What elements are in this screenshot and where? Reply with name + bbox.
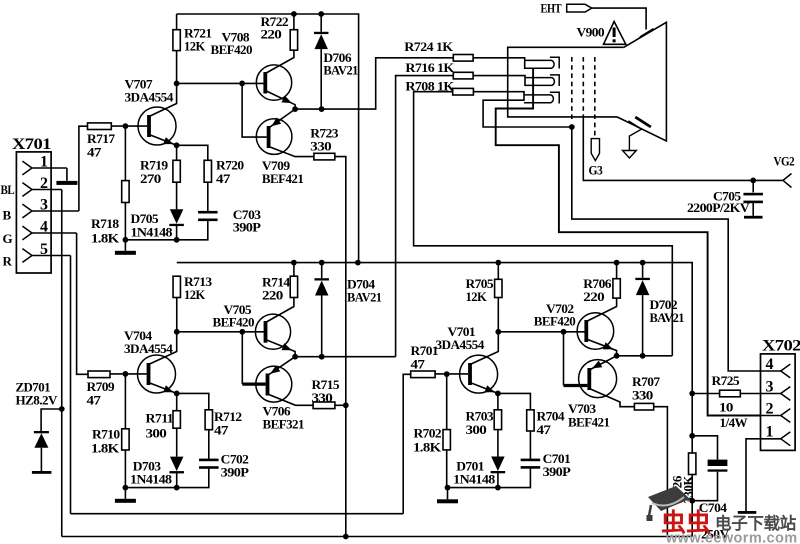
pin 1 line of X702 [761, 438, 781, 440]
svg-text:4: 4 [40, 219, 48, 236]
resistor R718 body [122, 181, 129, 203]
svg-text:BEF420: BEF420 [534, 314, 575, 329]
svg-text:HZ8.2V: HZ8.2V [16, 393, 59, 408]
heater filament stroke [635, 117, 651, 127]
resistor R723 body [314, 153, 335, 160]
wire V707 collector node to V708 base [177, 82, 266, 84]
wire R709 left to X701 pin4 [77, 233, 88, 374]
contact chevron X701 pin 1 [22, 161, 32, 175]
wire D702 top stem [642, 263, 644, 278]
transistor V704 [138, 355, 176, 393]
capacitor C702 [199, 459, 219, 462]
wire R713 bottom stem [176, 298, 178, 332]
wire V704 emitter to R712 [177, 393, 209, 409]
wire R717 left to X701 pin3 [79, 126, 88, 211]
node R710 bottom junction [123, 485, 129, 491]
resistor R705 body [495, 279, 502, 297]
connector X702 body [761, 354, 796, 451]
svg-text:R702: R702 [414, 426, 442, 441]
node R705/V702 base junction [495, 329, 501, 335]
resistor R708 body [453, 88, 474, 95]
contact chevron X701 pin 5 [22, 249, 32, 263]
node R714 top [291, 260, 297, 266]
svg-text:390P: 390P [233, 220, 261, 235]
svg-text:3DA4554: 3DA4554 [124, 341, 173, 356]
node R722 top [291, 11, 297, 17]
wire R705 top stem [497, 263, 499, 280]
wire V702 emitter node to red output [617, 355, 673, 357]
node C704 top tap [689, 433, 695, 439]
wire R716 to cathode 2 [473, 76, 525, 86]
diode D703 [170, 457, 184, 472]
CRT grid bracket 1 [550, 57, 559, 68]
node R715 junction [343, 402, 349, 408]
wire D706 top stem [320, 14, 322, 32]
wire R720 to C703 [207, 182, 209, 211]
svg-text:B: B [3, 208, 12, 223]
contact chevron X702 pin 1 [781, 432, 791, 446]
resistor R720 body [204, 160, 211, 182]
CRT cathode 3 [524, 95, 553, 103]
svg-text:47: 47 [87, 393, 102, 408]
wire R719 to D705 [176, 182, 178, 209]
wire R722 top stem [293, 14, 295, 30]
connector X701 body [16, 152, 51, 273]
capacitor C701 [521, 459, 541, 462]
resistor R712 body [205, 410, 212, 430]
svg-text:47: 47 [214, 423, 229, 438]
node D704 bottom junction [319, 354, 325, 360]
CRT V900 funnel and faceplate [617, 22, 666, 141]
svg-text:1N4148: 1N4148 [453, 472, 496, 487]
pin 2 line of X702 [761, 415, 781, 417]
diode D705 [170, 209, 184, 224]
resistor R714 body [290, 276, 297, 297]
resistor R706 body [613, 279, 620, 298]
node C705 junction [750, 178, 756, 184]
resistor R726 body [689, 453, 696, 475]
CRT cathode 2 [525, 78, 554, 86]
capacitor C704 [708, 460, 728, 466]
thick base lead of V703 [564, 384, 588, 387]
wire G2 to VG2 [583, 115, 782, 180]
wire V701 emitter to R703 [497, 393, 499, 409]
wire V704 collector node to V705 base [177, 331, 266, 333]
svg-text:BAV21: BAV21 [323, 63, 358, 78]
node G1 junction [569, 124, 575, 130]
wire C703 bottom to ground rail [125, 220, 207, 240]
wire 200V supply rail [177, 263, 692, 394]
wire C702 bottom to ground rail [125, 468, 208, 488]
wire EHT to anode [592, 8, 646, 29]
ground of X701 pin1 [56, 181, 77, 185]
svg-text:R716 1K: R716 1K [405, 60, 455, 75]
svg-text:10: 10 [719, 400, 733, 415]
svg-text:3: 3 [766, 378, 774, 395]
node D701 cathode junction [495, 485, 501, 491]
grid G2 dashed electrode [582, 57, 584, 115]
wire V705 emitter node to green output [295, 356, 396, 358]
svg-text:390P: 390P [543, 464, 571, 479]
node V701 emitter [495, 391, 501, 397]
node R723 common rail junction [343, 534, 349, 540]
wire X701 pin2 down to common rail [61, 190, 63, 537]
ground right stage [447, 488, 449, 500]
svg-text:300: 300 [146, 426, 167, 441]
wire cathode return to X702 pin2 [496, 69, 761, 416]
ground top stage [124, 240, 126, 251]
svg-text:BAV21: BAV21 [650, 310, 685, 325]
wire V701 collector node to V702 base [498, 331, 586, 333]
wire R712 to C702 [208, 430, 210, 459]
wire R708 left drop to red output [414, 92, 673, 356]
diode D706 [314, 32, 329, 34]
resistor R702 body [443, 430, 450, 450]
wire R710 bottom stem [124, 450, 126, 488]
svg-text:390P: 390P [221, 465, 249, 480]
wire R718 bottom stem [124, 203, 126, 240]
resistor R722 body [290, 30, 297, 51]
resistor R716 body [453, 72, 473, 79]
svg-text:12K: 12K [184, 39, 206, 54]
node R721/V708 base junction [174, 81, 180, 87]
resistor R719 body [173, 160, 180, 182]
svg-text:220: 220 [583, 289, 604, 304]
node V704 base [123, 371, 129, 377]
resistor R717 body [88, 123, 112, 130]
svg-text:BEF421: BEF421 [262, 171, 303, 186]
svg-text:330: 330 [310, 139, 331, 154]
wire R725 to supply node [692, 393, 719, 395]
wire C705 top stem [752, 180, 754, 192]
thick base lead of V706 [242, 383, 265, 386]
wire V704 emitter to R711 [176, 393, 178, 410]
node V707 emitter [174, 142, 180, 148]
ground middle stage [124, 488, 126, 499]
contact chevron X701 pin 3 [22, 204, 32, 218]
wire R721 bottom stem [176, 51, 178, 84]
diode D702 [635, 278, 650, 280]
svg-text:330: 330 [632, 388, 653, 403]
wire D704 bottom stem [321, 296, 323, 357]
svg-text:BEF420: BEF420 [213, 315, 254, 330]
electrode G3 terminal [591, 139, 599, 161]
diode D704 [314, 278, 329, 280]
svg-text:R710: R710 [92, 427, 120, 442]
node V705 emitter junction [292, 354, 298, 360]
wire R706 top stem [616, 263, 618, 279]
resistor R725 body [720, 390, 741, 397]
wire G1 to X702 pin4 [572, 127, 761, 371]
resistor R701 body [411, 371, 435, 378]
node V706 base tap [239, 329, 245, 335]
transistor V702 [577, 313, 614, 350]
node supply entry [689, 391, 695, 397]
wire bottom feed rail [71, 513, 404, 515]
transistor V703 [579, 360, 617, 398]
wire D701 to bottom rail [497, 472, 499, 488]
wire R721 top stem [176, 14, 178, 30]
wire C704 bottom lead [692, 472, 717, 501]
wire V707 emitter to R719 [176, 145, 178, 160]
node ZD701 tap [59, 406, 65, 412]
pin 3 line of X702 [761, 393, 781, 395]
transistor V706 [256, 366, 292, 402]
svg-text:BL: BL [1, 182, 16, 197]
node D704 top [319, 260, 325, 266]
wire C701 bottom to ground rail [448, 467, 531, 487]
wire R704 to C701 [529, 431, 531, 459]
wire R701 left to bottom feed [403, 374, 411, 513]
wire R726 to common rail [691, 475, 693, 537]
contact chevron X701 pin 2 [22, 183, 32, 197]
svg-text:X702: X702 [762, 338, 800, 355]
svg-text:220: 220 [262, 288, 283, 303]
CRT grid bracket 3 [550, 92, 559, 103]
resistor R715 body [313, 402, 335, 409]
svg-text:2200P/2KV: 2200P/2KV [687, 200, 750, 215]
svg-text:R718: R718 [91, 216, 120, 231]
node C704 bottom tap [689, 498, 695, 504]
wire D704 top stem [321, 263, 323, 279]
warning triangle of V900 [604, 22, 626, 45]
node D706 bottom junction [319, 106, 325, 112]
wire top supply rail [177, 14, 359, 263]
node V707 base [123, 123, 129, 129]
resistor R704 body [527, 410, 534, 431]
wire C705 bottom stem [752, 202, 754, 216]
transistor V701 [460, 355, 498, 393]
svg-text:3DA4554: 3DA4554 [436, 337, 485, 352]
contact chevron X702 pin 2 [781, 409, 791, 423]
svg-text:BEF321: BEF321 [263, 417, 304, 432]
resistor R713 body [173, 276, 180, 297]
svg-text:47: 47 [216, 171, 231, 186]
wire D702 bottom stem [642, 295, 644, 356]
svg-text:1: 1 [766, 424, 774, 441]
wire ZD701 top lead [41, 409, 62, 431]
wire R703 to D701 [497, 430, 499, 457]
svg-text:R: R [3, 254, 13, 269]
svg-text:47: 47 [411, 357, 426, 372]
capacitor C703 [198, 211, 218, 214]
wire R714 top stem [293, 263, 295, 277]
terminal EHT connector [567, 4, 592, 12]
svg-text:5: 5 [40, 241, 48, 258]
svg-text:2: 2 [766, 400, 774, 417]
wire D703 to bottom rail [176, 472, 178, 488]
wire supply node to R726 [691, 394, 693, 454]
wire D705 to bottom rail [176, 225, 178, 240]
node V704 emitter [174, 391, 180, 397]
svg-text:4: 4 [766, 356, 774, 373]
node V708 emitter junction [292, 106, 298, 112]
node V709 base tap [239, 81, 245, 87]
wire D706 bottom stem [320, 49, 322, 109]
wire bottom common rail [62, 536, 692, 538]
node V701 base [444, 371, 450, 377]
svg-text:BAV21: BAV21 [347, 290, 382, 305]
svg-text:1N4148: 1N4148 [130, 472, 173, 487]
resistor R707 body [634, 403, 653, 410]
transistor V709 [256, 119, 292, 155]
pin 4 line of X701 [32, 232, 77, 234]
svg-text:R724 1K: R724 1K [404, 39, 454, 54]
node R702 bottom junction [445, 485, 451, 491]
resistor R721 body [173, 30, 180, 51]
svg-text:BEF420: BEF420 [211, 42, 252, 57]
node V702 emitter junction [614, 353, 620, 359]
svg-text:220: 220 [261, 27, 282, 42]
terminal bar of ZD701 [32, 471, 52, 474]
svg-text:1: 1 [40, 154, 48, 171]
resistor R711 body [173, 411, 180, 429]
node D702 bottom junction [640, 353, 646, 359]
contact chevron X702 pin 4 [781, 364, 791, 378]
pin 1 line of X701 [32, 167, 67, 169]
svg-text:G3: G3 [589, 163, 604, 178]
wire R725 to X702 pin3 [740, 393, 760, 395]
svg-text:www.eeworm.com: www.eeworm.com [665, 531, 798, 544]
pin 3 line of X701 [32, 210, 79, 212]
svg-text:300: 300 [466, 422, 487, 437]
svg-text:R711: R711 [146, 411, 174, 426]
svg-text:47: 47 [537, 422, 552, 437]
CRT cathode 1 [525, 60, 554, 68]
wire R724 to cathode 1 [473, 58, 525, 69]
svg-text:1.8K: 1.8K [91, 231, 120, 246]
CRT V900 neck outline [508, 47, 624, 117]
contact chevron X701 pin 4 [22, 226, 32, 240]
wire R707 to common rail [654, 407, 668, 537]
wire R718 top stem [124, 126, 126, 181]
wire V707 emitter to R720 [177, 145, 208, 160]
resistor R710 body [122, 429, 129, 450]
pin 4 line of X702 [761, 370, 781, 372]
svg-text:VG2: VG2 [774, 154, 795, 169]
svg-text:V900: V900 [577, 25, 605, 40]
wire ZD701 bottom lead [40, 448, 42, 471]
svg-text:1.8K: 1.8K [91, 441, 120, 456]
node D702 top [640, 260, 646, 266]
resistor R709 body [88, 371, 110, 378]
zener diode ZD701 [34, 431, 49, 433]
wire R710 top stem [124, 374, 126, 429]
wire R705 bottom stem [497, 298, 499, 332]
node R706 top [614, 260, 620, 266]
transistor V705 [255, 314, 290, 349]
svg-text:EHT: EHT [541, 1, 562, 16]
ground bar of C705 [744, 216, 763, 219]
node D705 cathode junction [174, 237, 180, 243]
node R705 top [495, 260, 501, 266]
node V703 base tap [561, 329, 567, 335]
transistor V707 [138, 107, 176, 145]
wire R716 left drop to green output [396, 76, 454, 357]
svg-text:2: 2 [40, 175, 48, 192]
wire R708 to cathode 3 and G1 staircase [473, 92, 571, 127]
node supply rail feed [355, 260, 361, 266]
wire X701 pin1 to ground [66, 168, 68, 181]
pin 2 line of X701 [32, 189, 62, 191]
wire X701 pin5 down to bottom feed [70, 256, 72, 514]
node D706 top [318, 11, 324, 17]
svg-text:G: G [3, 231, 13, 246]
svg-text:330: 330 [312, 390, 333, 405]
diode D701 [491, 457, 505, 472]
watermark logo cap [648, 486, 690, 511]
svg-text:3: 3 [40, 197, 48, 214]
pin 5 line of X701 [32, 255, 71, 257]
wire R715 to common rail [335, 404, 346, 406]
svg-text:3DA4554: 3DA4554 [125, 90, 174, 105]
ground of X702 pin1 [738, 511, 757, 514]
svg-text:R725: R725 [712, 373, 741, 388]
resistor R703 body [494, 410, 501, 430]
capacitor C705 [743, 193, 763, 196]
svg-text:12K: 12K [466, 289, 488, 304]
anode contact slash [640, 29, 654, 37]
terminal VG2 arrow [783, 174, 792, 188]
wire R702 top stem [446, 374, 448, 430]
wire V701 emitter to R704 [498, 393, 531, 409]
wire R702 bottom stem [446, 450, 448, 488]
svg-text:1.8K: 1.8K [413, 440, 442, 455]
transistor V708 [256, 65, 291, 100]
grid G1 dashed electrode [571, 57, 573, 122]
node R713/V705 base junction [174, 329, 180, 335]
svg-text:1/4W: 1/4W [720, 415, 748, 430]
resistor R724 body [453, 55, 473, 62]
CRT grid bracket 2 [550, 75, 559, 86]
contact chevron X702 pin 3 [781, 387, 791, 401]
svg-text:270: 270 [140, 171, 161, 186]
wire R711 to D703 [176, 428, 178, 456]
wire R723 to common rail [335, 157, 346, 537]
wire V708 emitter node to R724 [295, 58, 453, 109]
node D703 cathode junction [174, 485, 180, 491]
svg-text:1N4148: 1N4148 [131, 225, 174, 240]
grid G3 dashed electrode [594, 57, 596, 137]
svg-text:47: 47 [87, 145, 102, 160]
chassis arrow of heater [623, 121, 642, 158]
node R718 bottom junction [123, 237, 129, 243]
svg-text:12K: 12K [184, 287, 206, 302]
wire X702 pin1 to ground [746, 439, 761, 511]
wire C704 top lead [692, 436, 717, 460]
svg-text:BEF421: BEF421 [568, 415, 609, 430]
svg-text:X701: X701 [12, 136, 51, 153]
